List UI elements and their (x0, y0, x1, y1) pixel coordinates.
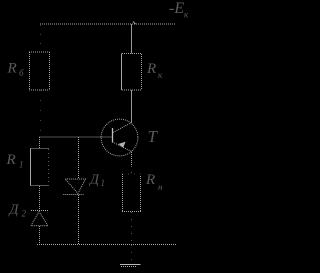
wire: Д2 to bottom rail (39, 226, 41, 245)
label Д1 (88, 173, 105, 189)
diode Д1 cathode bar (63, 194, 84, 196)
diode Д2 cathode bar (31, 210, 48, 212)
wire: collector branch from rail to Rк (131, 24, 133, 54)
wire: Rб bottom lead (very faint) (40, 90, 42, 137)
label Rн (145, 172, 163, 192)
resistor Rб (29, 52, 50, 90)
svg-text:R: R (145, 172, 155, 188)
label Rб (7, 61, 25, 79)
wire: base node down to R1 (39, 137, 41, 149)
diode Д2 triangle (31, 212, 48, 226)
svg-text:к: к (158, 70, 163, 80)
ground bar 2 (121, 266, 137, 268)
wire: Rн bottom lead (faint) (131, 212, 133, 243)
resistor Rн (122, 174, 141, 212)
label R1 (6, 152, 24, 170)
resistor Rк (122, 54, 143, 91)
transistor T circle (101, 119, 138, 156)
svg-text:R: R (146, 61, 156, 77)
wire: base junction down to Д1 (78, 137, 80, 179)
transistor base bar (112, 128, 114, 143)
ground bar 1 (120, 264, 141, 266)
svg-text:Т: Т (148, 127, 159, 146)
wire: Д1 to bottom rail (78, 195, 80, 245)
transistor collector diagonal (113, 123, 132, 133)
svg-text:R: R (6, 152, 16, 168)
svg-text:н: н (158, 182, 163, 192)
node: junction tick on top rail at collector branch (133, 22, 136, 25)
wire: top supply rail (40, 23, 176, 25)
label Д2 (8, 203, 27, 219)
transistor emitter arrow (PNP) (118, 142, 125, 148)
wire: ground stub (faint) (131, 245, 133, 263)
svg-text:1: 1 (19, 160, 24, 170)
wire: Rб top lead (very faint) (40, 25, 42, 52)
label Rк (146, 61, 163, 80)
svg-text:Д: Д (88, 173, 100, 188)
svg-text:-E: -E (169, 0, 184, 17)
label -Eк supply (169, 0, 189, 20)
svg-text:б: б (19, 68, 24, 78)
svg-text:Д: Д (8, 203, 20, 218)
diode Д1 triangle (65, 179, 85, 194)
transistor emitter diagonal (113, 142, 132, 152)
svg-text:1: 1 (101, 178, 106, 188)
svg-text:R: R (7, 61, 17, 77)
svg-text:к: к (184, 10, 189, 20)
wire: R1 to Д2 (39, 186, 41, 211)
wire: Rк bottom to transistor collector (131, 90, 133, 123)
wire: emitter to Rн (faint) (131, 166, 133, 174)
resistor R1 (31, 149, 50, 186)
svg-text:2: 2 (22, 209, 27, 219)
wire: emitter down (131, 152, 133, 166)
wire: base lead (40, 136, 113, 138)
wire: bottom rail (37, 244, 177, 246)
